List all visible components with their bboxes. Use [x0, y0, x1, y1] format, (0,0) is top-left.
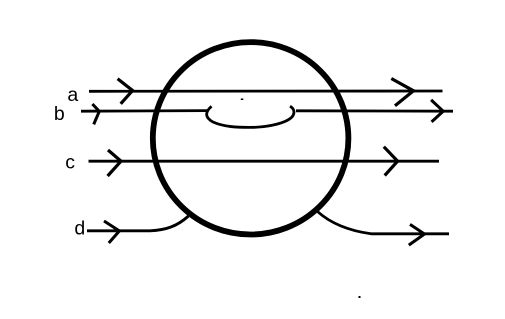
wire: line b right segment	[296, 109, 453, 112]
svg-text:a: a	[67, 84, 78, 106]
arrow on line a (right)	[391, 79, 413, 106]
wire: line a	[89, 90, 443, 93]
arrow on line c (left)	[108, 150, 121, 176]
arrow on line a (left)	[118, 79, 133, 104]
wire: line d left segment curving up to circle	[87, 216, 189, 231]
wire: line b left segment	[81, 109, 208, 112]
wire: line d right segment curving down from circle	[318, 212, 450, 234]
arrow on line b (right)	[431, 100, 443, 122]
svg-text:d: d	[74, 218, 85, 240]
arrow on line d (left)	[104, 221, 119, 243]
wire: line c	[89, 160, 440, 163]
stray dot bottom right	[359, 296, 361, 298]
circle (field region boundary)	[153, 42, 349, 234]
arrow on line b (left)	[92, 104, 99, 124]
stray dot inside circle	[241, 99, 244, 101]
svg-text:c: c	[65, 152, 75, 174]
svg-text:b: b	[54, 103, 65, 125]
arrow on line c (right)	[384, 147, 398, 176]
arc dip under line b	[207, 106, 294, 127]
arrow on line d (right)	[409, 224, 425, 245]
